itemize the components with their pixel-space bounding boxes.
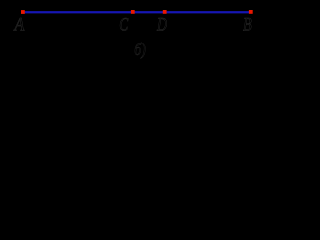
node D [163, 10, 167, 14]
svg-text:B: B [243, 14, 252, 35]
node A [21, 10, 25, 14]
node C [131, 10, 135, 14]
wire: segment AB [23, 11, 251, 13]
node B [249, 10, 253, 14]
svg-text:A: A [13, 15, 25, 36]
svg-text:б): б) [134, 40, 146, 59]
svg-text:D: D [156, 14, 167, 35]
svg-text:C: C [119, 14, 128, 35]
